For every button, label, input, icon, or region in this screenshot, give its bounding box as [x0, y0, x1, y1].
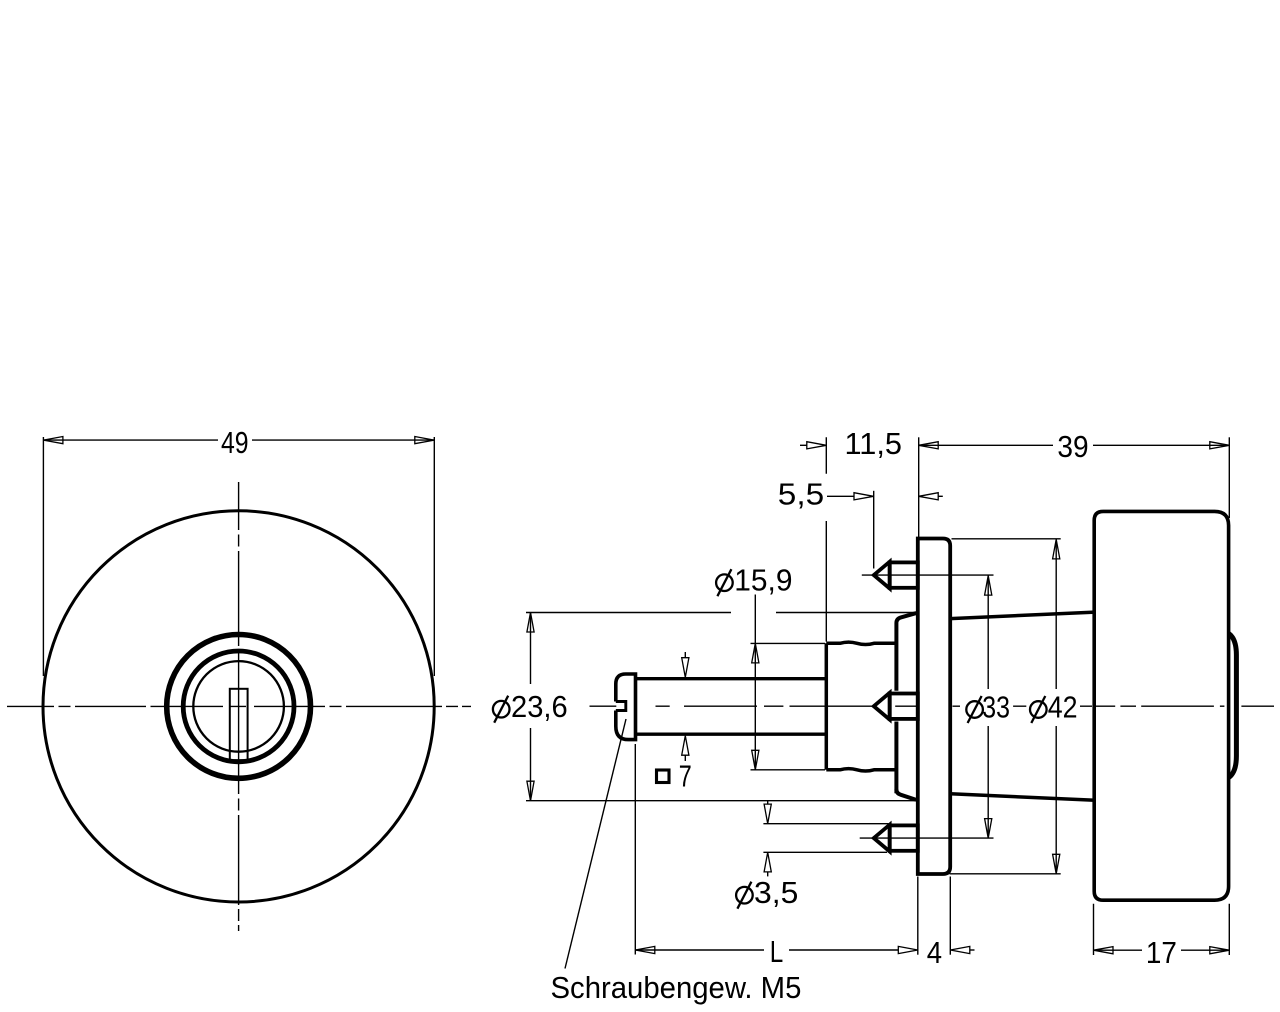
- dimension ø3,5 extension lines: [763, 824, 888, 853]
- cylinder ø15.9 top edge with break wave: [826, 642, 896, 645]
- pin top body: [890, 562, 918, 587]
- svg-text:17: 17: [1146, 935, 1177, 970]
- dimension L right arrow: [898, 946, 918, 953]
- svg-text:L: L: [770, 934, 784, 969]
- centerline horizontal left view: [7, 705, 471, 707]
- dimension ø23,6 dim line: [530, 613, 532, 801]
- dimension ø23,6 extension lines: [526, 612, 916, 614]
- dimension ø3,5 arrows: [767, 801, 769, 804]
- dimension 17 dim line: [1094, 949, 1230, 951]
- dimension 5,5 line and arrows: [827, 495, 854, 497]
- centerline horizontal right view: [590, 705, 1275, 707]
- dimension 39 left arrow: [919, 442, 939, 449]
- dimension L left arrow: [635, 946, 655, 953]
- svg-text:4: 4: [927, 935, 942, 970]
- svg-text:11,5: 11,5: [845, 426, 903, 461]
- dimension 49 left arrow: [43, 437, 63, 444]
- pin bottom body: [890, 825, 918, 850]
- dimension ø15,9 dim line: [754, 595, 756, 770]
- svg-text:49: 49: [221, 425, 249, 460]
- label ø23,6: [493, 696, 510, 723]
- shaft square 7 bottom edge: [637, 733, 827, 736]
- frustum top edge plate to knob: [950, 612, 1095, 619]
- lock cylinder outer ring: [167, 635, 311, 779]
- extension line plate left bottom: [917, 877, 919, 955]
- dimension L dim line: [635, 949, 898, 951]
- keyhole slot: [230, 689, 248, 760]
- label ø42: [1030, 696, 1047, 723]
- svg-text:39: 39: [1057, 429, 1088, 464]
- svg-text:3,5: 3,5: [754, 875, 798, 910]
- frustum bottom edge plate to knob: [950, 794, 1095, 801]
- dimension ø42 arrows: [1053, 539, 1060, 559]
- knob body side view: [1094, 511, 1228, 900]
- extension line plate right bottom: [949, 877, 951, 955]
- dimension 39 right arrow: [1210, 442, 1230, 449]
- cylinder ø15.9 bottom edge with break wave: [826, 769, 896, 772]
- pin top cone: [874, 562, 890, 589]
- knob right face boss bump: [1229, 634, 1237, 778]
- collar step edge at plate: [894, 623, 898, 793]
- dimension ø23,6 arrows: [527, 613, 534, 633]
- dimension ø15,9 extension lines: [751, 643, 826, 769]
- dimension ø33 dim line: [987, 576, 989, 839]
- extension line plate left face: [918, 437, 920, 537]
- label ø3,5: [736, 882, 753, 909]
- extension line L left: [634, 744, 636, 955]
- dimension 11,5 arrow and extensions: [800, 444, 807, 446]
- pin middle body: [890, 694, 918, 719]
- dimension ø42 dim line: [1055, 539, 1057, 873]
- centerline vertical left view: [238, 482, 240, 931]
- dimension ø42 extension lines: [950, 539, 1061, 874]
- knob outer circle ø49: [43, 511, 434, 902]
- dimension 17 arrows: [1094, 947, 1114, 954]
- extension line knob right face top: [1228, 437, 1230, 518]
- dimension 49 extension lines: [43, 437, 434, 676]
- cylinder ø15.9 left face: [825, 643, 829, 770]
- dimension ø33 arrows: [985, 576, 992, 596]
- extension lines 17: [1094, 904, 1230, 955]
- svg-text:42: 42: [1048, 689, 1078, 724]
- dimension square7 arrows: [684, 652, 686, 658]
- lock cylinder middle ring: [183, 651, 294, 762]
- label ø15,9: [716, 569, 733, 596]
- svg-text:7: 7: [679, 759, 692, 794]
- dimension ø33 extension lines through pin tips: [862, 574, 994, 576]
- collar bottom chamfer: [896, 789, 916, 800]
- mounting plate ø42: [918, 539, 950, 875]
- screw head slot: [616, 702, 626, 711]
- screw head: [616, 672, 636, 741]
- svg-text:23,6: 23,6: [511, 689, 568, 724]
- svg-text:15,9: 15,9: [734, 563, 792, 598]
- dimension 39 dim line: [919, 444, 1230, 446]
- label ø33: [966, 696, 983, 723]
- pin bottom cone: [874, 825, 890, 852]
- svg-text:5,5: 5,5: [778, 476, 824, 511]
- square symbol for 7: [657, 770, 670, 783]
- pin middle cone: [874, 693, 890, 720]
- svg-text:33: 33: [982, 689, 1010, 724]
- dimension 4 right arrow: [950, 946, 970, 953]
- extension line pin tip: [873, 491, 875, 569]
- shaft square 7 top edge: [637, 677, 827, 680]
- dimension 49 dim line: [43, 439, 434, 441]
- dimension ø15,9 arrows: [752, 643, 759, 663]
- leader line Schraubengew: [565, 719, 626, 969]
- lock cylinder inner circle: [193, 661, 284, 752]
- dimension 49 right arrow: [415, 437, 435, 444]
- collar top chamfer: [896, 613, 916, 623]
- svg-text:Schraubengew. M5: Schraubengew. M5: [551, 970, 802, 1005]
